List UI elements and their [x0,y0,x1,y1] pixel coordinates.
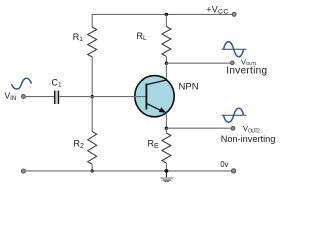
svg-text:Non-inverting: Non-inverting [221,134,276,144]
wire VIN terminal to capacitor [26,96,54,98]
transistor collector stroke [146,80,166,85]
svg-text:VOUT2: VOUT2 [243,124,260,134]
svg-text:Inverting: Inverting [226,66,267,77]
wire emitter node to RE [165,128,167,133]
wire RL top [165,14,167,26]
ground bar 2 [162,179,171,181]
input sine wave icon [12,78,32,89]
non-inverting sine axis [222,114,247,116]
svg-text:RE: RE [148,139,160,150]
wire base node to R2 [91,97,93,132]
node R2 bottom rail junction [91,169,94,172]
terminal VOUT1 [230,61,234,65]
svg-text:+VCC: +VCC [206,4,229,15]
wire collector vertical [165,63,167,80]
capacitor C1 left plate [54,91,56,105]
wire emitter node to VOUT2 terminal [166,127,231,129]
svg-text:R1: R1 [73,32,84,43]
resistor RL [162,27,171,57]
wire collector node to VOUT1 terminal [166,62,230,64]
node collector junction [165,62,168,65]
transistor Q1 body [135,76,174,117]
non-inverting sine wave icon [224,108,244,122]
inverting sine wave icon [224,42,244,57]
transistor emitter stroke [146,103,164,112]
terminal VIN [21,95,25,99]
svg-text:VIN: VIN [5,91,17,103]
svg-text:R2: R2 [74,139,85,150]
resistor R1 [88,27,97,57]
svg-text:RL: RL [137,31,148,42]
ground bar 3 [164,181,169,182]
svg-text:NPN: NPN [179,82,199,93]
wire top rail [92,13,232,15]
capacitor C1 right plate [58,91,60,105]
ground stub [165,171,167,177]
capacitor C1 plates fill [55,91,58,104]
wire RL bottom to collector node [165,57,167,64]
terminal bottom left [21,169,25,173]
resistor RE [162,133,171,163]
wire R2 bottom [91,164,93,171]
node base junction [91,95,94,98]
node ground junction [165,169,169,173]
transistor emitter arrow [159,107,167,113]
terminal +VCC [232,12,236,16]
svg-text:C1: C1 [52,77,63,88]
transistor base bar [145,84,147,110]
resistor R2 [88,132,97,165]
node emitter junction [165,127,168,130]
wire emitter vertical [165,112,167,128]
wire R1 top [91,14,93,28]
terminal 0v [231,169,235,173]
wire R1 bottom to base node [91,57,93,97]
inverting sine axis [222,48,247,50]
wire RE bottom [165,163,167,171]
ground bar 1 [160,177,173,179]
node RL top junction [165,13,168,16]
terminal VOUT2 [231,126,235,130]
wire bottom rail [26,170,231,172]
svg-text:0v: 0v [220,160,228,169]
wire base [60,96,146,98]
